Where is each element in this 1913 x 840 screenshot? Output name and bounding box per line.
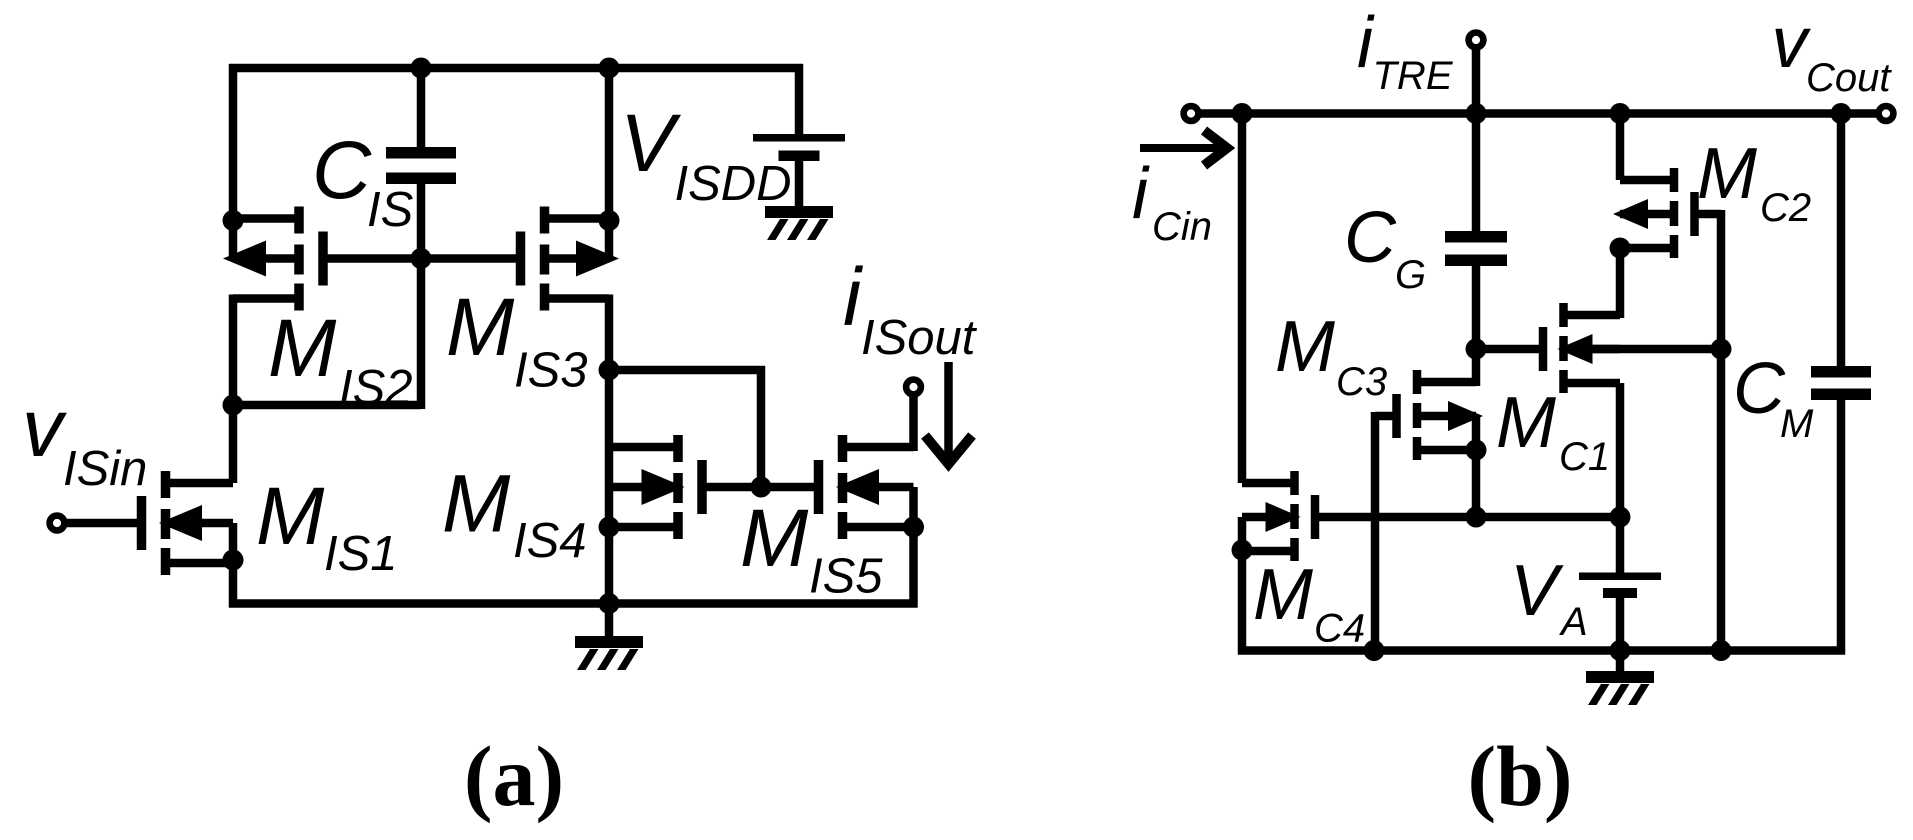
battery V_A <box>1579 573 1661 599</box>
svg-text:ISout: ISout <box>861 311 978 365</box>
svg-text:ISDD: ISDD <box>675 157 792 211</box>
node: gate wire / link junction <box>751 477 772 498</box>
node: M_C2 drain/bulk junction <box>1610 238 1631 259</box>
svg-text:M: M <box>1496 383 1556 463</box>
wire: ground column (M_C2 gate / M_C1 bulk to bottom rail) <box>1717 210 1726 655</box>
wire: M_IS1 gate lead <box>60 519 142 528</box>
node: M_IS4 source on right rail <box>599 517 620 538</box>
current arrow i_ISout <box>925 362 972 464</box>
label v_ISin <box>22 383 147 496</box>
battery V_ISDD <box>753 134 845 161</box>
node: bottom rail / ground junction <box>599 593 620 614</box>
label V_A <box>1510 551 1588 644</box>
svg-text:IS5: IS5 <box>809 550 883 604</box>
node: M_IS5 source junction <box>903 517 924 538</box>
node: left rail / gate feedback junction <box>223 395 244 416</box>
svg-text:A: A <box>1559 600 1588 644</box>
svg-text:C: C <box>1733 349 1786 429</box>
svg-text:IS4: IS4 <box>513 514 587 568</box>
svg-text:M: M <box>1253 555 1313 635</box>
label i_TRE <box>1357 3 1454 98</box>
wire: M_IS3 source to M_IS4/M_IS5 gate link <box>605 370 761 487</box>
terminal: i_ISout output <box>906 380 921 395</box>
node: top rail / C_M junction <box>1831 103 1852 124</box>
transistor M_IS4 (NMOS) <box>609 435 707 539</box>
capacitor C_G <box>1445 231 1507 266</box>
wire: C_M top stem <box>1837 110 1846 369</box>
wire: M_IS5 drain up to output terminal <box>909 392 918 451</box>
label i_Cin <box>1132 154 1212 249</box>
wire: M_C1 source down to V_A node <box>1616 383 1625 521</box>
wire: (b) bottom ground rail <box>1238 646 1845 655</box>
svg-text:C4: C4 <box>1314 607 1365 651</box>
wire: C_G top stem <box>1472 110 1481 233</box>
wire: (a) right rail lower segment (M_IS3 source to ground) <box>605 295 614 608</box>
svg-text:V: V <box>1510 551 1564 631</box>
wire: (a) left rail middle segment (M_IS2 source to M_IS1 drain) <box>229 295 238 484</box>
label M_IS2 <box>268 303 413 415</box>
svg-text:M: M <box>446 282 515 373</box>
wire: (b) top rail <box>1191 109 1886 118</box>
node: M_C4 source junction <box>1232 540 1253 561</box>
transistor M_IS1 (NMOS) <box>137 471 233 575</box>
label M_C1 <box>1496 383 1610 479</box>
node: C_G / M_C1 gate / M_C3 drain junction <box>1466 339 1487 360</box>
node: top rail / input junction <box>1232 103 1253 124</box>
svg-text:V: V <box>620 98 682 189</box>
transistor M_C2 (PMOS) <box>1613 168 1699 258</box>
wire: battery V_ISDD bottom stem <box>795 161 804 210</box>
label M_IS4 <box>442 459 587 569</box>
terminal: v_ISin input <box>50 516 65 531</box>
wire: V_A bottom stem <box>1616 598 1625 655</box>
label M_C4 <box>1253 555 1365 651</box>
ground: V_ISDD ground <box>765 206 833 240</box>
wire: M_C3 drain up to C_G node <box>1472 349 1481 386</box>
svg-text:M: M <box>268 303 337 394</box>
terminal: i_Cin input <box>1184 106 1199 121</box>
node: gate wire / V_A junction <box>1610 507 1631 528</box>
node: top rail / M_C2 junction <box>1610 103 1631 124</box>
svg-text:C2: C2 <box>1760 186 1811 230</box>
wire: (b) left rail (input down to M_C4 drain) <box>1238 110 1247 484</box>
wire: (a) left rail upper segment (M_IS2 drain/bulk to supply) <box>229 64 238 259</box>
node: top rail / i_TRE-C_G junction <box>1466 103 1487 124</box>
node: top rail / right rail junction <box>599 58 620 79</box>
capacitor C_IS <box>386 147 456 184</box>
wire: M_IS4-M_IS5 gate wire <box>702 483 819 492</box>
svg-text:IS3: IS3 <box>514 344 588 398</box>
wire: (a) right rail upper segment <box>605 64 614 259</box>
capacitor C_M <box>1811 366 1871 400</box>
wire: M_IS5 source/bulk down to bottom rail <box>909 487 918 608</box>
node: ground column / M_C1 bulk junction <box>1711 339 1732 360</box>
node: bottom rail / V_A junction <box>1610 640 1631 661</box>
svg-text:M: M <box>1275 307 1335 387</box>
wire: (a) bottom ground rail <box>229 599 918 608</box>
terminal: v_Cout output <box>1879 106 1894 121</box>
wire: C_G bottom stem <box>1472 265 1481 353</box>
ground: (a) main ground <box>575 604 643 671</box>
wire: (a) top supply rail <box>229 64 803 73</box>
svg-text:IS1: IS1 <box>324 527 398 581</box>
label M_IS1 <box>256 471 398 581</box>
svg-text:IS2: IS2 <box>339 361 413 415</box>
svg-text:i: i <box>1132 154 1150 234</box>
ground: (b) main ground <box>1586 650 1654 705</box>
wire: M_C3 source/bulk down to gate wire <box>1472 416 1481 521</box>
wire: C_IS top stem <box>417 64 426 148</box>
node: top rail / C_IS junction <box>411 58 432 79</box>
transistor M_IS2 (PMOS) <box>223 207 328 311</box>
node: bottom rail / ground column junction <box>1711 640 1732 661</box>
svg-text:C: C <box>1344 198 1397 278</box>
transistor M_C4 (NMOS) <box>1242 471 1319 561</box>
wire: battery V_ISDD top stem <box>795 64 804 140</box>
node: M_C3 source junction <box>1466 440 1487 461</box>
label M_IS5 <box>740 493 883 604</box>
svg-text:C1: C1 <box>1559 435 1610 479</box>
wire: M_IS2-M_IS3 gate wire <box>323 254 521 263</box>
caption (a) <box>464 728 564 824</box>
label i_ISout <box>843 252 978 365</box>
svg-text:TRE: TRE <box>1373 54 1454 98</box>
node: gate wire / M_C3 junction <box>1466 507 1487 528</box>
label C_IS <box>312 125 414 237</box>
label v_Cout <box>1772 3 1893 100</box>
caption (b) <box>1467 728 1572 824</box>
svg-text:M: M <box>1697 134 1757 214</box>
transistor M_C3 (PMOS) <box>1392 370 1483 460</box>
wire: M_C2 gate over to ground column <box>1698 210 1721 219</box>
label V_ISDD <box>620 98 792 211</box>
svg-text:C3: C3 <box>1336 360 1387 404</box>
svg-text:v: v <box>22 383 67 474</box>
label C_G <box>1344 198 1426 297</box>
node: gate wire / C_IS junction <box>411 248 432 269</box>
label M_C3 <box>1275 307 1387 404</box>
wire: M_C4 gate wire to V_A <box>1315 513 1620 522</box>
label M_IS3 <box>446 282 588 398</box>
svg-text:M: M <box>1780 402 1814 446</box>
svg-text:ISin: ISin <box>63 442 147 496</box>
wire: M_C2 source up to top rail <box>1616 114 1625 181</box>
svg-text:Cin: Cin <box>1152 205 1212 249</box>
svg-text:Cout: Cout <box>1806 56 1892 100</box>
wire: M_C1 drain up to M_C2 node <box>1616 248 1625 318</box>
svg-text:G: G <box>1395 253 1426 297</box>
transistor M_IS5 (NMOS) <box>814 435 914 539</box>
svg-text:M: M <box>442 459 511 550</box>
wire: M_C1 gate lead <box>1472 345 1543 354</box>
node: M_IS3 drain on right rail <box>599 210 620 231</box>
svg-text:M: M <box>740 493 809 584</box>
terminal: i_TRE <box>1469 33 1484 48</box>
transistor M_C1 (NMOS) <box>1539 303 1721 393</box>
wire: V_A top stem <box>1616 517 1625 575</box>
wire: C_M bottom stem <box>1837 399 1846 655</box>
wire: C_IS bottom stem down to gate-feedback corner <box>417 184 426 409</box>
wire: M_C4 source/bulk down to bottom rail <box>1238 517 1247 655</box>
current arrow i_Cin <box>1140 131 1227 166</box>
svg-text:(a): (a) <box>464 728 564 824</box>
wire: M_C3 gate down to ground rail <box>1375 412 1397 655</box>
svg-text:M: M <box>256 471 325 562</box>
wire: i_TRE terminal stem <box>1472 45 1481 118</box>
label C_M <box>1733 349 1814 446</box>
svg-text:(b): (b) <box>1467 728 1572 824</box>
wire: gate feedback bottom (to left node) <box>229 401 421 410</box>
node: M_IS3 source / M_IS4 drain junction <box>599 360 620 381</box>
label M_C2 <box>1697 134 1811 230</box>
node: M_IS1 source junction <box>223 550 244 571</box>
svg-text:C: C <box>312 125 372 216</box>
node: M_IS2 drain on left rail <box>223 210 244 231</box>
node: bottom rail / M_C3 gate junction <box>1364 640 1385 661</box>
wire: M_IS1 source/bulk down to bottom rail <box>229 523 238 608</box>
transistor M_IS3 (PMOS) <box>516 207 619 311</box>
svg-text:IS: IS <box>367 183 414 237</box>
